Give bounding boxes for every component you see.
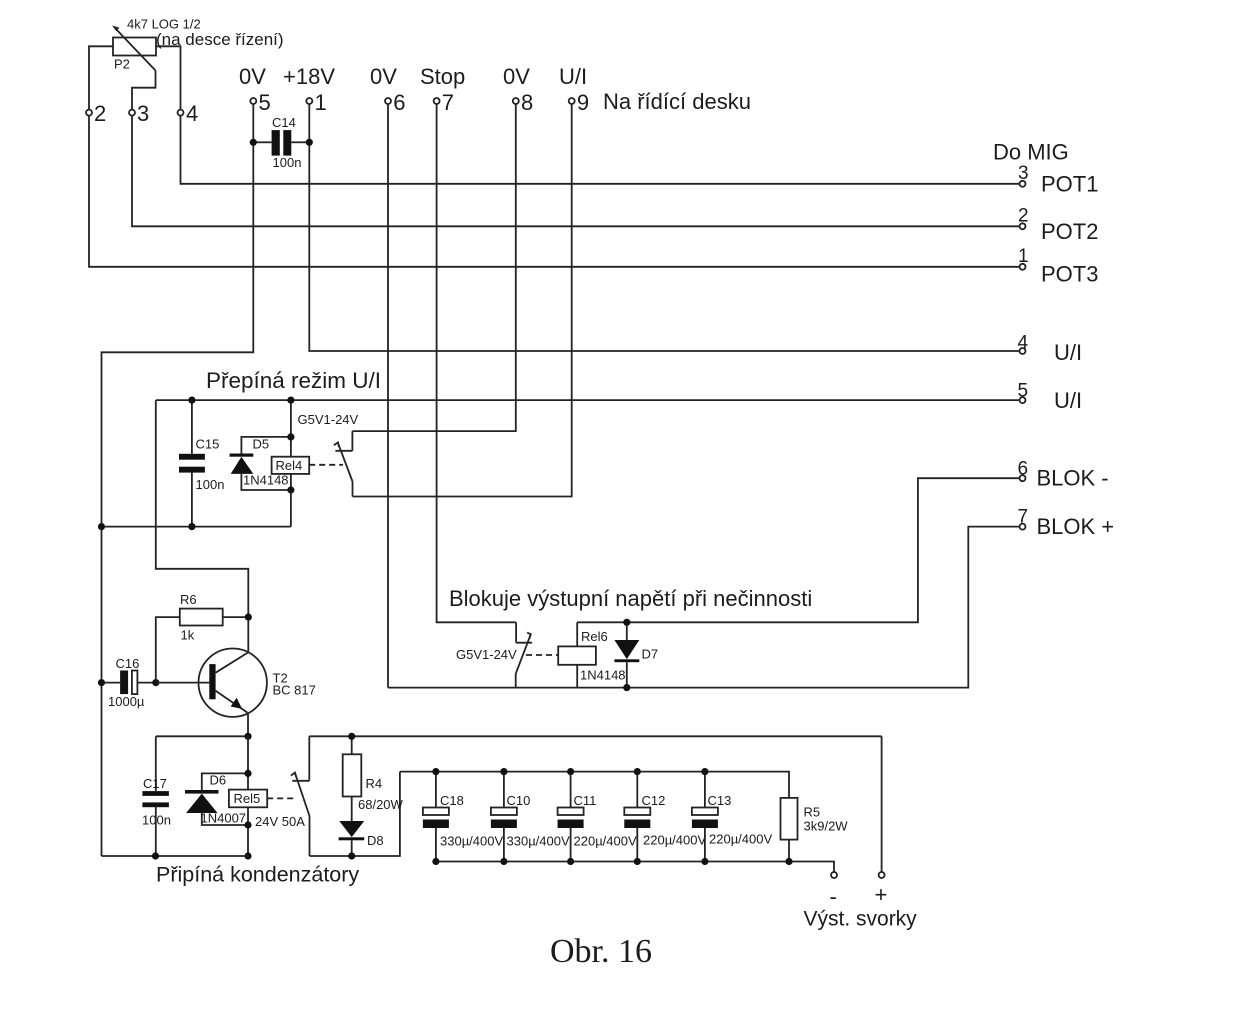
- svg-text:C16: C16: [116, 656, 140, 671]
- wire left branch down to collector link: [156, 400, 249, 652]
- diode D5 1N4148: [230, 437, 291, 490]
- junction base: [152, 679, 159, 686]
- svg-text:-: -: [830, 884, 837, 909]
- wire P2 left lead: [89, 46, 113, 109]
- svg-text:Přepíná režim U/I: Přepíná režim U/I: [206, 368, 381, 393]
- svg-text:0V: 0V: [503, 64, 530, 89]
- svg-text:3: 3: [137, 101, 149, 126]
- svg-text:7: 7: [442, 90, 454, 115]
- wire terminal5 down to 0V rail corner: [102, 104, 254, 856]
- relay contact Rel5 switch: [291, 736, 310, 856]
- relay contact Rel6 switch: [516, 622, 532, 687]
- wire terminal9 down to Rel4 blade: [353, 104, 572, 497]
- svg-text:D7: D7: [642, 647, 659, 662]
- terminal 1: [306, 98, 312, 104]
- svg-text:2: 2: [1018, 206, 1029, 227]
- junction R6 right / collector: [245, 614, 252, 621]
- diode D6 1N4007: [185, 773, 248, 825]
- svg-text:C11: C11: [574, 793, 597, 808]
- resistor R5 3k9/2W: [781, 798, 798, 862]
- terminal BLOK- (6): [1020, 475, 1026, 481]
- svg-text:6: 6: [1018, 459, 1029, 480]
- capacitor C10 330u/400V: [491, 772, 517, 862]
- svg-text:Výst. svorky: Výst. svorky: [804, 908, 918, 931]
- svg-text:1N4007: 1N4007: [201, 811, 247, 826]
- junction D6 top: [244, 770, 251, 777]
- resistor R6: [156, 609, 249, 683]
- svg-text:7: 7: [1018, 507, 1029, 528]
- capacitor C12 220u/400V: [624, 772, 650, 862]
- terminal 4: [178, 110, 184, 116]
- wire terminal8 down to Rel4 contact: [352, 104, 515, 431]
- svg-text:2: 2: [94, 101, 106, 126]
- junction R5 bottom: [785, 858, 792, 865]
- relay coil Rel5: [229, 736, 267, 856]
- svg-text:BC 817: BC 817: [273, 683, 316, 698]
- diode D7 1N4148: [614, 622, 639, 687]
- terminal U/I (5): [1020, 397, 1026, 403]
- junction D5 bottom: [287, 486, 294, 493]
- dashed link Rel6: [526, 654, 558, 656]
- terminal 3: [129, 110, 135, 116]
- junction C17 bottom: [152, 852, 159, 859]
- capacitor C16 1000u: [102, 671, 156, 695]
- terminal 2: [86, 110, 92, 116]
- svg-text:BLOK -: BLOK -: [1037, 466, 1109, 491]
- resistor R4 68/20W: [343, 736, 362, 821]
- svg-text:R5: R5: [804, 805, 821, 820]
- junction Rel5 bottom: [244, 852, 251, 859]
- svg-text:C13: C13: [708, 793, 732, 808]
- svg-text:U/I: U/I: [1054, 388, 1082, 413]
- svg-text:G5V1-24V: G5V1-24V: [456, 647, 517, 662]
- svg-text:R6: R6: [180, 592, 197, 607]
- svg-text:1k: 1k: [181, 628, 195, 643]
- wire bottom rail left section: [102, 855, 249, 857]
- wire capacitor top rail: [400, 772, 789, 798]
- svg-text:100n: 100n: [142, 813, 171, 828]
- junction D5 top: [287, 433, 294, 440]
- svg-text:Do MIG: Do MIG: [993, 140, 1069, 165]
- svg-text:G5V1-24V: G5V1-24V: [298, 412, 359, 427]
- svg-text:3: 3: [1018, 163, 1029, 184]
- capacitor C14: [256, 130, 306, 156]
- wire emitter top rail left: [156, 735, 248, 737]
- svg-text:C14: C14: [272, 115, 296, 130]
- wire plus terminal vertical: [881, 736, 883, 871]
- wire terminal4 to POT1: [181, 116, 1020, 184]
- junction coil rail C15: [188, 397, 195, 404]
- capacitor C13 220u/400V: [692, 772, 718, 862]
- svg-text:1N4148: 1N4148: [580, 668, 626, 683]
- junction D8 bottom: [348, 852, 355, 859]
- wire terminal2 to POT3: [89, 116, 1020, 267]
- wire BLOK+ to 0V rail: [388, 527, 1020, 688]
- junction emitter rail: [244, 733, 251, 740]
- svg-text:0V: 0V: [370, 64, 397, 89]
- svg-text:+: +: [875, 882, 888, 907]
- capacitor C17: [142, 736, 169, 856]
- junction D7 top: [623, 619, 630, 626]
- svg-text:5: 5: [1018, 381, 1029, 402]
- terminal BLOK+ (7): [1020, 524, 1026, 530]
- wire BLOK- to Rel6 rail: [577, 478, 1019, 622]
- svg-text:Blokuje výstupní napětí při ne: Blokuje výstupní napětí při nečinnosti: [449, 586, 812, 611]
- svg-text:4: 4: [1018, 333, 1029, 354]
- svg-text:220µ/400V: 220µ/400V: [574, 834, 637, 849]
- svg-text:3k9/2W: 3k9/2W: [804, 819, 849, 834]
- capacitor C11 220u/400V: [558, 772, 584, 862]
- junction D6 bottom: [244, 821, 251, 828]
- wire P2 wiper to terminal3: [132, 71, 156, 110]
- svg-text:C15: C15: [196, 437, 220, 452]
- svg-text:220µ/400V: 220µ/400V: [709, 832, 772, 847]
- terminal POT1 (3): [1020, 181, 1026, 187]
- svg-text:POT1: POT1: [1041, 172, 1098, 197]
- svg-text:1000µ: 1000µ: [108, 694, 145, 709]
- relay contact Rel4 switch: [334, 431, 353, 496]
- terminal POT3 (1): [1020, 264, 1026, 270]
- terminal minus: [831, 872, 837, 878]
- svg-text:Rel5: Rel5: [234, 791, 261, 806]
- svg-text:8: 8: [521, 90, 533, 115]
- transistor T2 BC817: [156, 649, 267, 737]
- wire P2 right lead: [156, 46, 181, 109]
- junction R4 top: [348, 733, 355, 740]
- svg-text:100n: 100n: [196, 477, 225, 492]
- svg-text:D5: D5: [253, 437, 270, 452]
- svg-text:Rel4: Rel4: [276, 458, 303, 473]
- wire top rail right section: [309, 735, 881, 737]
- svg-text:U/I: U/I: [1054, 340, 1082, 365]
- potentiometer P2: [112, 26, 156, 71]
- svg-text:6: 6: [393, 90, 405, 115]
- relay coil Rel6: [558, 622, 596, 687]
- svg-text:C12: C12: [642, 793, 666, 808]
- svg-text:BLOK +: BLOK +: [1037, 514, 1115, 539]
- terminal U/I (4): [1020, 348, 1026, 354]
- svg-text:330µ/400V: 330µ/400V: [440, 834, 503, 849]
- junction C14 right: [306, 139, 313, 146]
- wire capacitor bottom rail: [436, 862, 834, 872]
- svg-text:Připíná kondenzátory: Připíná kondenzátory: [156, 863, 359, 887]
- terminal plus: [879, 872, 885, 878]
- wire terminal1 down then right to U/I-4: [309, 104, 1019, 351]
- svg-text:220µ/400V: 220µ/400V: [643, 833, 706, 848]
- wire Rel4 bottom rail: [102, 526, 291, 528]
- svg-text:Rel6: Rel6: [581, 629, 608, 644]
- capacitor C15: [179, 400, 205, 526]
- wire switch bottom rail to cap rail: [310, 772, 400, 856]
- svg-text:R4: R4: [366, 776, 383, 791]
- junction bottom rail C15: [188, 523, 195, 530]
- svg-text:Obr. 16: Obr. 16: [550, 933, 652, 970]
- svg-text:1: 1: [315, 90, 327, 115]
- svg-text:9: 9: [577, 90, 589, 115]
- svg-text:100n: 100n: [273, 155, 302, 170]
- svg-text:POT2: POT2: [1041, 219, 1098, 244]
- junction bottom rail left: [98, 523, 105, 530]
- svg-text:C10: C10: [507, 793, 531, 808]
- svg-text:U/I: U/I: [559, 64, 587, 89]
- junction 0V rail C16: [98, 679, 105, 686]
- svg-text:Na řídící desku: Na řídící desku: [603, 89, 751, 114]
- dashed link Rel4: [309, 464, 343, 466]
- svg-text:0V: 0V: [239, 64, 266, 89]
- relay coil Rel4: [272, 400, 310, 526]
- terminal 5: [250, 98, 256, 104]
- svg-text:C17: C17: [143, 776, 167, 791]
- svg-text:68/20W: 68/20W: [358, 797, 404, 812]
- svg-text:D8: D8: [367, 833, 384, 848]
- svg-text:P2: P2: [114, 57, 130, 72]
- capacitor C18 330u/400V: [423, 772, 449, 862]
- svg-text:C18: C18: [440, 793, 464, 808]
- dashed link Rel5: [267, 797, 297, 799]
- wire terminal6 down to blade rail: [387, 104, 389, 688]
- junction D7 bottom: [623, 684, 630, 691]
- svg-text:+18V: +18V: [283, 64, 335, 89]
- svg-text:D6: D6: [210, 773, 227, 788]
- svg-text:330µ/400V: 330µ/400V: [507, 834, 570, 849]
- junction C14 left: [250, 139, 257, 146]
- svg-text:4: 4: [186, 101, 198, 126]
- junction coil rail Rel4: [287, 397, 294, 404]
- wire Rel4 coil top rail to U/I-5: [156, 399, 1020, 401]
- terminal 6: [385, 98, 391, 104]
- svg-text:24V 50A: 24V 50A: [255, 814, 305, 829]
- svg-text:Stop: Stop: [420, 64, 465, 89]
- terminal 8: [513, 98, 519, 104]
- svg-text:1: 1: [1018, 246, 1029, 267]
- wire terminal3 to POT2: [132, 116, 1020, 227]
- wire terminal7 down to stop rail: [437, 104, 516, 622]
- svg-text:5: 5: [259, 90, 271, 115]
- terminal 9: [569, 98, 575, 104]
- terminal 7: [434, 98, 440, 104]
- diode D8: [339, 821, 365, 856]
- svg-text:POT3: POT3: [1041, 262, 1098, 287]
- terminal POT2 (2): [1020, 223, 1026, 229]
